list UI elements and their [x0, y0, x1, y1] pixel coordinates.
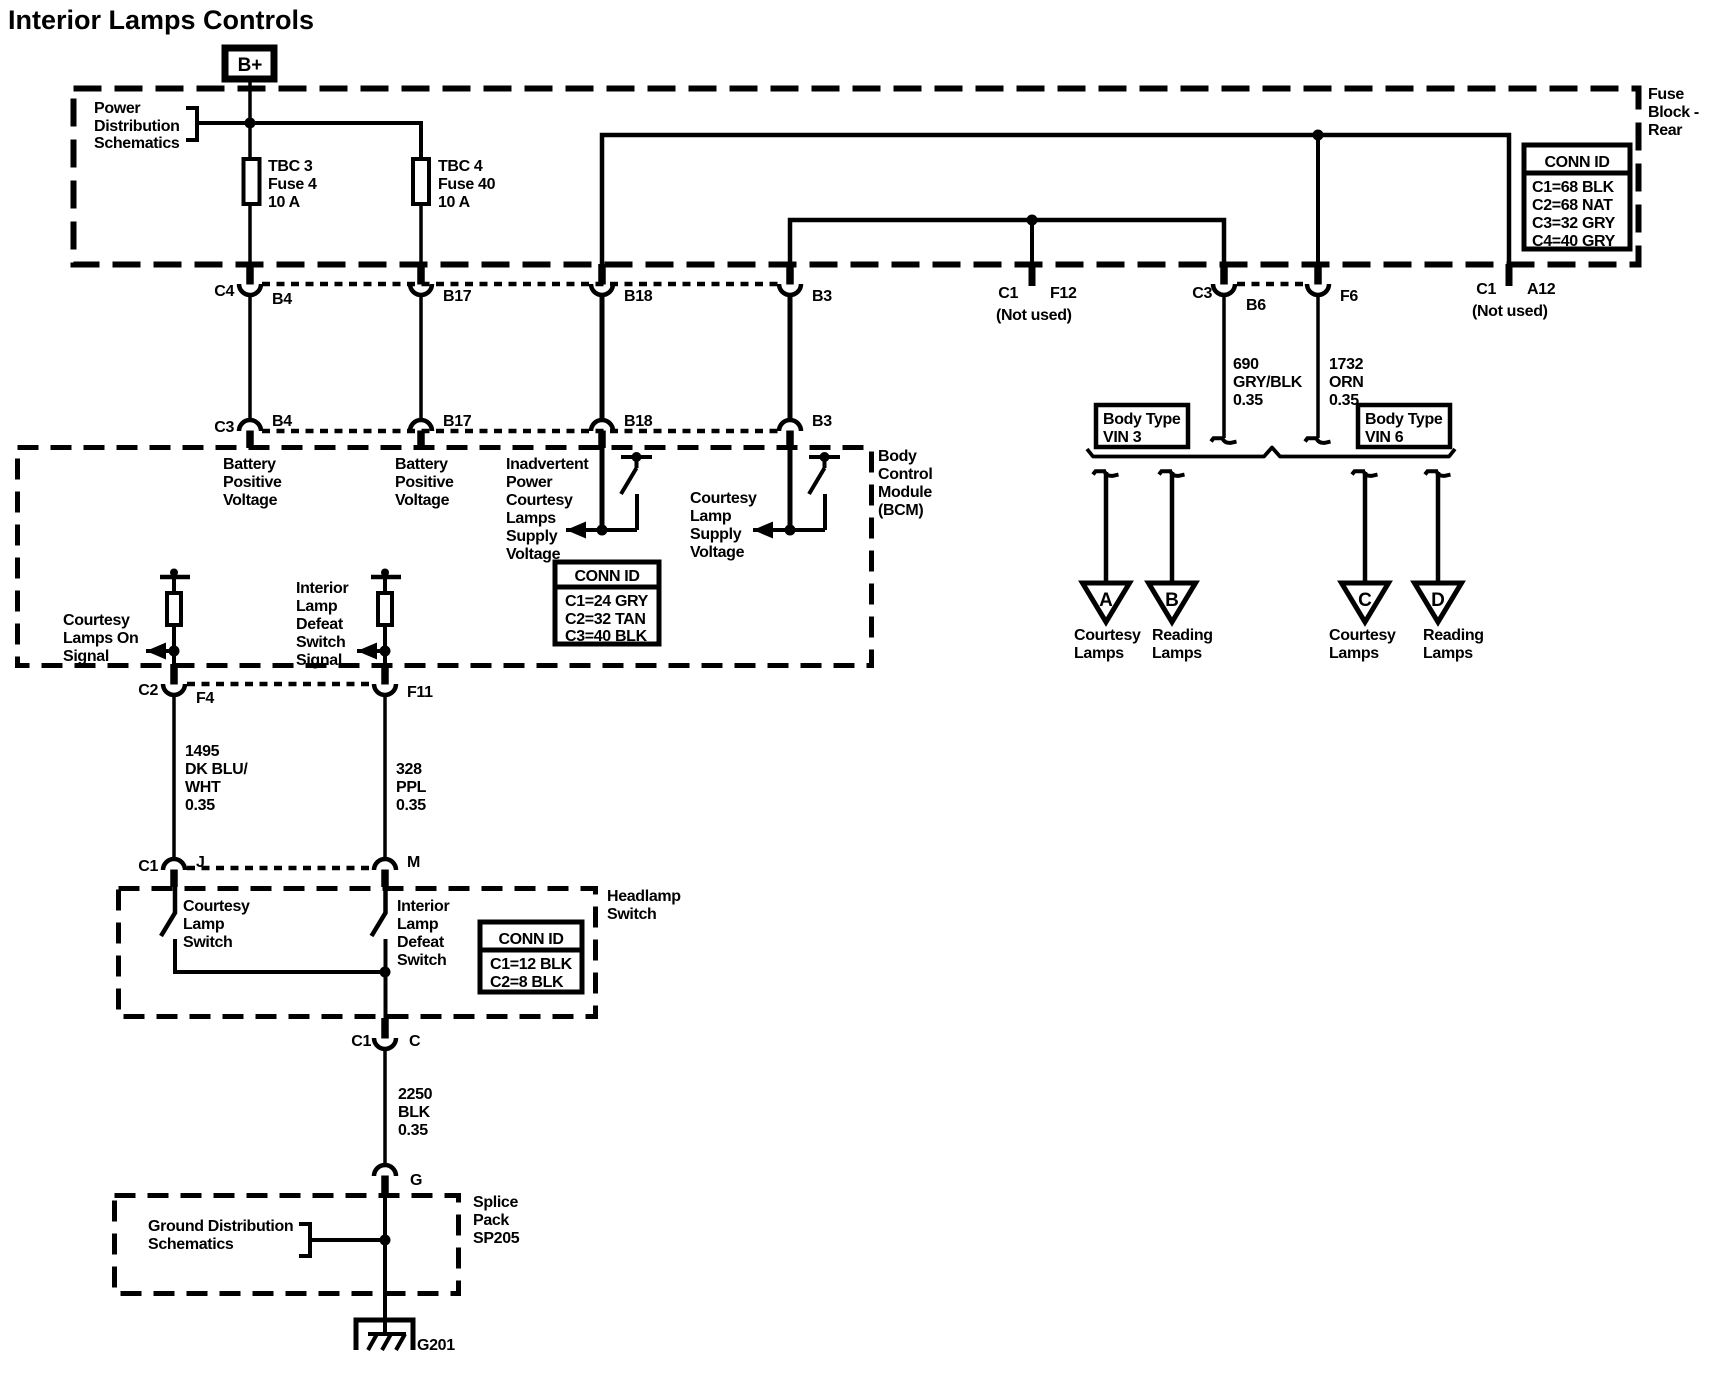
resistor courtesy lamps on [167, 593, 181, 625]
wire bus to B18 and A12 [602, 135, 1509, 266]
signal arrow interior lamp defeat [357, 643, 391, 660]
wire fuse TBC3 to pin C4 B4 [248, 204, 252, 265]
svg-text:B17: B17 [443, 413, 472, 430]
svg-text:0.35: 0.35 [1329, 392, 1359, 409]
svg-text:Fuse 40: Fuse 40 [438, 176, 496, 193]
wire splice to ground [383, 1193, 387, 1334]
svg-text:C2=32 TAN: C2=32 TAN [565, 611, 646, 628]
svg-text:Headlamp: Headlamp [607, 888, 681, 905]
bracket to Power Distribution Schematics [186, 108, 197, 140]
svg-text:TBC 3: TBC 3 [268, 158, 313, 175]
svg-text:Lamp: Lamp [296, 598, 338, 615]
svg-text:Voltage: Voltage [690, 544, 745, 561]
svg-text:C3=40 BLK: C3=40 BLK [565, 628, 648, 645]
connector pin line B6-F6 [1237, 282, 1305, 287]
svg-text:Lamps: Lamps [1152, 645, 1202, 662]
pin B3 fuse block [779, 264, 801, 295]
svg-text:Defeat: Defeat [397, 934, 445, 951]
interior lamp defeat driver: T-bar [371, 569, 401, 594]
pin labels C2 F4 F11 [138, 682, 433, 707]
svg-text:C2: C2 [138, 682, 158, 699]
svg-text:Splice: Splice [473, 1194, 518, 1211]
wire 1495 DK BLU/WHT [172, 695, 176, 860]
signal arrow courtesy lamps on [146, 643, 180, 660]
svg-text:Switch: Switch [296, 634, 345, 651]
wire resistor to pin [383, 625, 387, 666]
junction dot F6 tap [1313, 130, 1324, 141]
connector pin line fuse block C4 [262, 282, 778, 287]
BCM internal switch at B18 [566, 452, 652, 539]
svg-text:0.35: 0.35 [398, 1122, 428, 1139]
label Courtesy Lamp Supply Voltage [690, 490, 757, 561]
svg-text:Body Type: Body Type [1103, 411, 1181, 428]
svg-text:Voltage: Voltage [395, 492, 450, 509]
pin C1 J [163, 859, 185, 887]
svg-text:VIN 3: VIN 3 [1103, 429, 1142, 446]
pin B18 fuse block [591, 264, 613, 295]
svg-text:C2=8 BLK: C2=8 BLK [490, 974, 564, 991]
wire B4 to BCM [248, 295, 252, 420]
junction dot splice [380, 1235, 391, 1246]
ground G201 symbol [356, 1320, 413, 1350]
svg-text:Courtesy: Courtesy [506, 492, 573, 509]
pin labels C1 J M [138, 854, 420, 875]
wire ground distribution tap [310, 1238, 385, 1242]
svg-text:Reading: Reading [1423, 627, 1484, 644]
svg-text:B6: B6 [1246, 297, 1266, 314]
BCM internal switch at B3 [753, 452, 840, 539]
label Courtesy Lamp Switch [183, 898, 250, 951]
svg-text:BLK: BLK [398, 1104, 431, 1121]
svg-text:Positive: Positive [223, 474, 282, 491]
svg-text:WHT: WHT [185, 779, 221, 796]
svg-text:C1: C1 [1476, 281, 1496, 298]
brace grouping lamp feeds [1087, 448, 1455, 457]
svg-text:B3: B3 [812, 288, 832, 305]
svg-text:Lamp: Lamp [690, 508, 732, 525]
svg-text:Lamps: Lamps [1074, 645, 1124, 662]
pin labels C1 C [351, 1033, 421, 1050]
courtesy lamps on driver: T-bar [160, 569, 190, 594]
wire fuse TBC4 to pin B17 [419, 204, 423, 265]
svg-text:F11: F11 [407, 684, 433, 701]
fuse block rear dashed box [74, 89, 1639, 265]
svg-text:B18: B18 [624, 288, 653, 305]
svg-text:Signal: Signal [296, 652, 342, 669]
body control module BCM dashed box [18, 448, 872, 666]
label Courtesy Lamps On Signal [63, 612, 138, 665]
junction dot at B+ feed [245, 118, 256, 129]
svg-text:Courtesy: Courtesy [63, 612, 130, 629]
pin B3 BCM [779, 420, 801, 448]
svg-text:Distribution: Distribution [94, 118, 180, 135]
value label 328 PPL 0.35 [396, 761, 427, 814]
pin B17 fuse block [410, 264, 432, 295]
svg-text:Ground Distribution: Ground Distribution [148, 1218, 293, 1235]
wire power distribution feed to fuses [197, 123, 421, 160]
svg-text:Power: Power [94, 100, 140, 117]
resistor interior lamp defeat [378, 593, 392, 625]
svg-text:2250: 2250 [398, 1086, 433, 1103]
svg-text:Supply: Supply [690, 526, 742, 543]
CONN ID table BCM [555, 562, 659, 645]
value label 690 GRY/BLK 0.35 [1233, 356, 1303, 409]
courtesy lamp switch blade [161, 886, 176, 974]
svg-text:Control: Control [878, 466, 932, 483]
svg-text:Rear: Rear [1648, 122, 1682, 139]
svg-text:C1: C1 [351, 1033, 371, 1050]
svg-text:Reading: Reading [1152, 627, 1213, 644]
svg-text:Schematics: Schematics [148, 1236, 234, 1253]
svg-text:C: C [409, 1033, 421, 1050]
svg-text:Module: Module [878, 484, 932, 501]
svg-text:B4: B4 [272, 291, 292, 308]
wire F6 drop [1316, 135, 1320, 283]
pin C4/B4 fuse block [239, 264, 261, 295]
splice pack SP205 dashed box [115, 1196, 459, 1294]
wire B18 to BCM [600, 295, 605, 420]
svg-text:PPL: PPL [396, 779, 427, 796]
svg-text:Courtesy: Courtesy [690, 490, 757, 507]
pin F11 [374, 664, 396, 695]
svg-text:C3: C3 [1192, 285, 1212, 302]
svg-text:F12: F12 [1050, 285, 1077, 302]
svg-text:Schematics: Schematics [94, 135, 180, 152]
wire B3 to BCM [788, 295, 793, 420]
svg-text:C1: C1 [998, 285, 1018, 302]
svg-text:10 A: 10 A [268, 194, 301, 211]
connector pin line C1 J-M [187, 866, 372, 871]
svg-text:G: G [410, 1172, 422, 1189]
junction dot switch output [597, 525, 608, 536]
box Body Type VIN 6 [1358, 405, 1450, 447]
CONN ID table headlamp switch [480, 922, 582, 992]
wire 1732 ORN from F6 [1316, 295, 1320, 438]
fuse TBC 3 Fuse 4 10A [244, 158, 318, 211]
svg-text:Pack: Pack [473, 1212, 509, 1229]
svg-text:Battery: Battery [395, 456, 448, 473]
label Fuse Block - Rear [1648, 86, 1699, 139]
wire end hook F6 [1305, 438, 1331, 443]
wire bus B3 to B6 [790, 220, 1224, 283]
value label 2250 BLK 0.35 [398, 1086, 433, 1139]
svg-text:C1=24 GRY: C1=24 GRY [565, 593, 649, 610]
connector pin line C2 F4-F11 [187, 682, 372, 687]
svg-text:F4: F4 [196, 690, 214, 707]
pin C1 C [374, 1018, 396, 1049]
label Ground Distribution Schematics [148, 1218, 293, 1253]
svg-text:Supply: Supply [506, 528, 558, 545]
CONN ID table fuse block [1524, 145, 1630, 250]
pin labels BCM top row [214, 413, 832, 436]
svg-text:F6: F6 [1340, 288, 1358, 305]
svg-text:B+: B+ [238, 55, 263, 76]
wire B+ to fuse TBC3 [248, 82, 252, 160]
svg-text:ORN: ORN [1329, 374, 1364, 391]
wire F12 drop [1030, 220, 1034, 266]
junction dot switch output [785, 525, 796, 536]
svg-text:J: J [196, 854, 205, 871]
svg-text:CONN ID: CONN ID [498, 931, 563, 948]
junction dot F12 tap [1027, 215, 1038, 226]
interior lamp defeat switch blade [372, 886, 387, 1018]
svg-text:0.35: 0.35 [396, 797, 426, 814]
svg-text:0.35: 0.35 [185, 797, 215, 814]
svg-text:Voltage: Voltage [223, 492, 278, 509]
wire 328 PPL [383, 695, 387, 860]
svg-text:Switch: Switch [183, 934, 232, 951]
svg-text:C2=68 NAT: C2=68 NAT [1532, 197, 1613, 214]
label Body Control Module (BCM) [878, 448, 932, 519]
label Battery Positive Voltage (B17) [395, 456, 454, 509]
connector pin line BCM top [262, 429, 778, 434]
svg-text:Body: Body [878, 448, 917, 465]
label Power Distribution Schematics [94, 100, 180, 152]
svg-text:B3: B3 [812, 413, 832, 430]
svg-text:G201: G201 [417, 1337, 455, 1354]
pin F6 fuse block [1307, 264, 1329, 295]
value label 1732 ORN 0.35 [1329, 356, 1364, 409]
pin M [374, 859, 396, 887]
bracket to Ground Distribution Schematics [299, 1224, 310, 1256]
svg-text:VIN 6: VIN 6 [1365, 429, 1404, 446]
svg-text:(BCM): (BCM) [878, 502, 923, 519]
svg-text:(Not used): (Not used) [996, 307, 1072, 324]
svg-text:Lamps On: Lamps On [63, 630, 138, 647]
wire 690 GRY/BLK from B6 [1222, 295, 1226, 438]
svg-text:C4=40 GRY: C4=40 GRY [1532, 233, 1616, 250]
junction dot switches common [380, 967, 391, 978]
svg-text:DK BLU/: DK BLU/ [185, 761, 248, 778]
headlamp switch dashed box [119, 889, 596, 1017]
svg-text:Inadvertent: Inadvertent [506, 456, 589, 473]
svg-text:C4: C4 [214, 283, 234, 300]
lamp feed arrow D Reading Lamps [1415, 471, 1484, 662]
label Interior Lamp Defeat Switch [397, 898, 449, 969]
svg-text:A12: A12 [1527, 281, 1556, 298]
fuse TBC 4 Fuse 40 10A [413, 158, 496, 211]
svg-text:B: B [1165, 590, 1179, 611]
svg-text:C1=68 BLK: C1=68 BLK [1532, 179, 1615, 196]
svg-text:Switch: Switch [607, 906, 656, 923]
svg-text:C3=32 GRY: C3=32 GRY [1532, 215, 1616, 232]
svg-text:GRY/BLK: GRY/BLK [1233, 374, 1303, 391]
wire courtesy switch to junction [175, 970, 385, 974]
svg-text:D: D [1431, 590, 1445, 611]
pin C2 F4 [163, 664, 185, 695]
svg-text:Lamps: Lamps [1423, 645, 1473, 662]
svg-text:Fuse 4: Fuse 4 [268, 176, 317, 193]
label Battery Positive Voltage (B4) [223, 456, 282, 509]
svg-text:Lamp: Lamp [183, 916, 225, 933]
pin C3/B6 fuse block [1213, 264, 1235, 295]
pin C1 A12 (not used) [1506, 264, 1513, 286]
svg-text:10 A: 10 A [438, 194, 471, 211]
svg-text:CONN ID: CONN ID [574, 568, 639, 585]
svg-text:Interior: Interior [296, 580, 348, 597]
pin C3/B4 BCM [239, 420, 261, 448]
svg-text:(Not used): (Not used) [1472, 303, 1548, 320]
svg-text:B4: B4 [272, 413, 292, 430]
svg-text:1732: 1732 [1329, 356, 1364, 373]
svg-text:Lamps: Lamps [506, 510, 556, 527]
svg-text:Fuse: Fuse [1648, 86, 1684, 103]
label Splice Pack SP205 [473, 1194, 520, 1247]
lamp feed arrow A Courtesy Lamps [1074, 471, 1141, 662]
wire B17 to BCM [419, 295, 423, 420]
svg-text:C: C [1358, 590, 1372, 611]
label Headlamp Switch [607, 888, 681, 923]
svg-text:Lamps: Lamps [1329, 645, 1379, 662]
svg-text:Battery: Battery [223, 456, 276, 473]
svg-text:Courtesy: Courtesy [1329, 627, 1396, 644]
svg-text:Lamp: Lamp [397, 916, 439, 933]
lamp feed arrow C Courtesy Lamps [1329, 471, 1396, 662]
label Inadvertent Power Courtesy Lamps Supply Voltage [506, 456, 589, 563]
svg-text:C1: C1 [138, 858, 158, 875]
svg-text:C1=12 BLK: C1=12 BLK [490, 956, 573, 973]
wire B18 into switch [600, 448, 605, 530]
svg-text:Courtesy: Courtesy [183, 898, 250, 915]
svg-text:1495: 1495 [185, 743, 220, 760]
svg-text:Courtesy: Courtesy [1074, 627, 1141, 644]
svg-text:328: 328 [396, 761, 422, 778]
svg-text:TBC 4: TBC 4 [438, 158, 483, 175]
wire B3 into switch [788, 448, 793, 530]
wire 2250 BLK [383, 1049, 387, 1164]
svg-text:Power: Power [506, 474, 552, 491]
pin B17 BCM [410, 420, 432, 448]
pin C1 F12 (not used) [1029, 264, 1036, 286]
svg-text:M: M [407, 854, 420, 871]
svg-text:Body Type: Body Type [1365, 411, 1443, 428]
svg-text:SP205: SP205 [473, 1230, 520, 1247]
pin B18 BCM [591, 420, 613, 448]
battery positive B+ terminal [225, 48, 274, 79]
svg-text:B17: B17 [443, 288, 472, 305]
svg-text:Interior: Interior [397, 898, 449, 915]
svg-text:A: A [1099, 590, 1113, 611]
lamp feed arrow B Reading Lamps [1149, 471, 1213, 662]
box Body Type VIN 3 [1096, 405, 1188, 447]
svg-text:Interior Lamps Controls: Interior Lamps Controls [8, 5, 314, 35]
svg-text:0.35: 0.35 [1233, 392, 1263, 409]
svg-text:690: 690 [1233, 356, 1259, 373]
svg-text:Signal: Signal [63, 648, 109, 665]
svg-text:Defeat: Defeat [296, 616, 344, 633]
svg-text:B18: B18 [624, 413, 653, 430]
label Interior Lamp Defeat Switch Signal [296, 580, 348, 669]
wire end hook B6 [1211, 438, 1237, 443]
svg-text:Voltage: Voltage [506, 546, 561, 563]
pin labels fuse block row [214, 281, 1556, 324]
svg-text:Switch: Switch [397, 952, 446, 969]
pin G [374, 1165, 396, 1193]
value label 1495 DK BLU/WHT 0.35 [185, 743, 248, 814]
svg-text:Positive: Positive [395, 474, 454, 491]
wire resistor to pin [172, 625, 176, 666]
svg-text:C3: C3 [214, 419, 234, 436]
svg-text:Block -: Block - [1648, 104, 1699, 121]
svg-text:CONN ID: CONN ID [1544, 154, 1609, 171]
